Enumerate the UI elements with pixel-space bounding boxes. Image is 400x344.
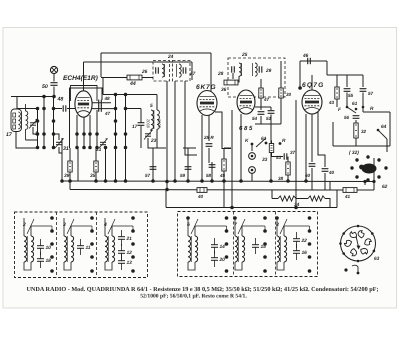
wire — [326, 61, 328, 75]
svg-text:50: 50 — [42, 84, 48, 90]
wire osc bottom — [148, 138, 166, 148]
wire resistor 43 top — [336, 75, 338, 84]
svg-text:55: 55 — [348, 93, 354, 98]
wire main bus 4 — [166, 207, 337, 209]
bus4 junctions — [230, 206, 298, 210]
wire — [156, 129, 158, 148]
contact dots under ECH4 row2 — [75, 146, 99, 150]
coil unit box B dashed border — [178, 212, 318, 277]
svg-text:6Q7G: 6Q7G — [302, 82, 324, 89]
wire — [148, 147, 166, 149]
tube label 6Q7G — [302, 82, 324, 89]
wire 6K7G top feed — [210, 53, 212, 91]
svg-text:29: 29 — [265, 68, 272, 74]
tube label 6K7G — [196, 84, 216, 91]
wire ECH4 grid2 — [92, 102, 111, 104]
value label 23 — [150, 138, 157, 144]
capacitor 57 — [150, 167, 157, 170]
caption line 1 — [26, 286, 378, 293]
wire switch column B — [37, 109, 39, 148]
coil unit box A dashed border — [15, 212, 148, 278]
wire main bus 1 — [62, 180, 374, 183]
svg-text:63: 63 — [374, 256, 380, 262]
capacitor 60 — [309, 164, 316, 167]
value label 48b — [104, 96, 111, 101]
wire resistor 35 bottom — [95, 175, 97, 181]
svg-text:K: K — [245, 138, 249, 144]
phone jack 33 — [249, 153, 256, 160]
wire ECH4 lead 3 — [89, 115, 91, 134]
value label 36 — [221, 87, 227, 93]
wire — [76, 134, 78, 148]
switch label F — [338, 107, 342, 113]
tube 6K7G IF amplifier — [197, 91, 217, 116]
svg-text:R: R — [282, 138, 286, 144]
coil unit 6 — [187, 218, 198, 270]
wire switch column C — [53, 97, 55, 148]
value label 32 — [361, 129, 367, 134]
wire — [324, 173, 326, 190]
wire — [336, 190, 338, 208]
capacitor 57b — [360, 89, 367, 92]
osc switch row0 — [114, 93, 128, 97]
svg-text:61: 61 — [352, 101, 358, 107]
resistor 35 — [94, 158, 98, 175]
svg-text:33: 33 — [262, 157, 268, 163]
value label 40 — [197, 194, 204, 199]
osc switch row3 — [114, 132, 128, 136]
value label 38 — [278, 176, 284, 181]
wire resistor 44 to IF1 — [142, 77, 153, 79]
value label 58 — [206, 173, 212, 178]
wire ECH4 grid lead — [83, 117, 85, 134]
wire 6Q7G lead 2 — [311, 114, 313, 162]
svg-text:10: 10 — [46, 245, 52, 251]
svg-text:6K7G: 6K7G — [196, 84, 216, 91]
value label 1 — [35, 131, 38, 137]
wire — [325, 199, 330, 208]
value label 28b — [217, 71, 224, 77]
svg-text:58: 58 — [206, 173, 212, 178]
wire cathode descend — [77, 148, 79, 182]
capacitor 55 — [344, 89, 351, 92]
coil unit 7 — [234, 218, 245, 270]
coil secondary — [26, 104, 28, 140]
value label 35 — [90, 173, 96, 179]
capacitor 11 — [77, 239, 91, 255]
wire — [272, 198, 278, 200]
wire — [165, 190, 167, 208]
svg-text:25: 25 — [241, 52, 248, 58]
wire AF takeoff — [255, 123, 281, 125]
svg-text:43: 43 — [328, 100, 335, 105]
switch 64 blade — [378, 130, 387, 139]
wire — [296, 198, 308, 200]
wire resistor 39 top — [69, 148, 71, 158]
value label 26 — [141, 69, 148, 75]
capacitor 46 — [308, 58, 311, 64]
switch contacts row 1 — [42, 95, 56, 99]
value label 60 — [305, 173, 311, 178]
svg-text:5: 5 — [150, 103, 153, 109]
capacitor 47 — [99, 105, 102, 111]
wire — [362, 75, 364, 87]
wire osc switch col C — [125, 95, 127, 182]
wire — [150, 129, 152, 131]
wire — [357, 189, 374, 191]
junction grid — [298, 86, 302, 90]
value label 59 — [180, 173, 186, 178]
svg-text:26: 26 — [141, 69, 148, 75]
junction 6K7G bus — [200, 179, 204, 183]
value label 56 — [344, 115, 350, 120]
wire trimmer to switch — [33, 127, 38, 134]
capacitor 51 — [268, 111, 275, 114]
bus junctions — [104, 179, 128, 183]
switch contacts row 4 — [36, 132, 56, 136]
value label 24 — [167, 54, 174, 60]
value label 49 — [263, 97, 270, 102]
antenna terminal — [50, 66, 57, 73]
svg-text:11: 11 — [86, 245, 91, 251]
switch 61a contacts — [251, 142, 282, 146]
terminal dots unit 7 — [233, 216, 267, 273]
value label 29 — [265, 68, 272, 74]
wire 6Q7G cathode — [305, 114, 307, 181]
wire — [362, 93, 364, 108]
capacitor 21 — [118, 230, 132, 246]
wire to varcap 31 — [54, 134, 60, 140]
wire — [346, 75, 348, 87]
wire grid cap to tube — [67, 108, 75, 110]
wire main bus 2 — [70, 189, 330, 192]
value label 5 — [150, 103, 153, 109]
wire — [224, 147, 231, 149]
junction — [210, 179, 214, 183]
switch contacts row 5 — [36, 146, 56, 150]
wire — [271, 141, 273, 145]
capacitor 20 — [211, 251, 225, 267]
tube label ECH4(E1R) — [63, 75, 98, 82]
capacitor 58 — [209, 165, 216, 168]
resistor 32 — [354, 120, 358, 141]
wire — [251, 144, 253, 151]
wire — [126, 108, 142, 110]
junction — [286, 179, 290, 183]
wire osc top — [103, 94, 157, 96]
svg-text:39: 39 — [64, 173, 70, 179]
wire — [330, 189, 343, 191]
switch label R — [282, 138, 286, 144]
coil unit 8 — [276, 218, 287, 270]
svg-text:13: 13 — [127, 260, 133, 266]
capacitor 48a — [63, 105, 66, 111]
wire — [270, 107, 272, 110]
wire plug drop — [373, 158, 375, 190]
bus junctions left — [68, 179, 98, 183]
IF2 primary winding — [239, 63, 242, 76]
wire resistor 45 top — [223, 149, 225, 157]
wire detector feeder — [231, 110, 233, 207]
wire screen feed — [102, 78, 104, 95]
svg-text:16: 16 — [302, 250, 308, 256]
capacitor 12 — [118, 244, 132, 260]
wire resistor 45 bottom — [223, 174, 225, 208]
junction — [304, 179, 308, 183]
svg-text:36: 36 — [221, 87, 227, 93]
osc switch row2 — [114, 119, 118, 123]
wire 6K7G anode branch — [215, 112, 231, 149]
label (32) — [349, 150, 359, 156]
capacitor 50 — [50, 83, 57, 86]
wire ECH4 lead 4 — [96, 110, 98, 134]
plug contact dots — [350, 155, 387, 181]
capacitor 26 — [156, 67, 159, 73]
wire — [272, 156, 284, 158]
svg-text:60: 60 — [305, 173, 311, 178]
socket pin lugs — [344, 230, 372, 258]
svg-text:47: 47 — [263, 97, 270, 102]
svg-text:56: 56 — [344, 115, 350, 120]
terminal dots unit 3 — [71, 216, 94, 273]
switch label 61 — [352, 101, 358, 107]
trimmer capacitor 1 — [29, 119, 38, 129]
wire — [83, 134, 85, 148]
switch contacts row 2 — [36, 107, 56, 111]
switch label K — [245, 138, 249, 144]
value label 51 — [266, 116, 272, 121]
wire resistor 35 top — [95, 148, 97, 158]
wire 6Q7G anode branch — [318, 112, 325, 167]
wire varcap 31 down — [59, 147, 62, 153]
wire — [232, 73, 234, 79]
switch label 64 — [381, 124, 387, 130]
svg-text:57: 57 — [368, 91, 374, 96]
svg-text:32: 32 — [361, 129, 367, 134]
capacitor 27 — [183, 67, 186, 73]
socket aux contact — [344, 265, 359, 274]
capacitor 14 — [211, 238, 225, 254]
IF1 primary winding — [162, 64, 165, 77]
svg-text:UNDA RADIO - Mod. QUADRIUNDA R: UNDA RADIO - Mod. QUADRIUNDA R 64/1 - Re… — [26, 286, 378, 293]
svg-text:31: 31 — [96, 147, 102, 153]
wire — [336, 102, 338, 107]
wire osc varcap down — [105, 148, 107, 182]
wire — [346, 93, 348, 108]
svg-text:54: 54 — [252, 116, 258, 121]
wire — [187, 148, 189, 162]
IF1 secondary winding — [177, 64, 182, 77]
value label 47 — [104, 111, 111, 116]
wire — [287, 178, 289, 181]
svg-text:35: 35 — [90, 173, 96, 179]
wire — [187, 148, 189, 181]
capacitor 54 — [258, 112, 265, 115]
resistor 30 — [279, 85, 283, 101]
osc switch row4 — [114, 146, 128, 150]
capacitor 28 — [232, 66, 235, 72]
svg-text:12: 12 — [127, 250, 133, 256]
svg-text:59: 59 — [180, 173, 186, 178]
svg-text:3: 3 — [63, 222, 66, 228]
capacitor 28R — [206, 144, 213, 147]
resistor 39 — [68, 158, 72, 175]
svg-text:21: 21 — [126, 236, 133, 242]
wire jack down — [251, 174, 253, 182]
wire osc switch col B — [115, 95, 117, 182]
switch label 61a — [261, 136, 267, 142]
value label 39 — [64, 173, 70, 179]
svg-text:46: 46 — [302, 53, 309, 59]
switch contacts row 3 — [36, 119, 56, 123]
value label 34 — [294, 202, 300, 208]
socket rim contacts — [339, 225, 375, 263]
svg-text:40: 40 — [328, 170, 335, 175]
capacitor 40 — [322, 169, 329, 172]
wire — [260, 101, 262, 110]
wire — [211, 162, 213, 169]
capacitor 18 — [37, 252, 51, 268]
value label 25 — [241, 52, 248, 58]
wire volume feed — [270, 124, 272, 181]
wire cap17 top — [140, 109, 142, 123]
variable capacitor 31b — [99, 139, 108, 149]
wire — [183, 147, 196, 149]
wire — [260, 116, 262, 124]
value label 43 — [328, 100, 335, 105]
wire — [364, 181, 366, 185]
wire — [280, 101, 282, 124]
oscillator coil 5 — [146, 110, 162, 129]
wire cap17 bottom — [140, 126, 142, 148]
svg-text:28 R: 28 R — [203, 135, 214, 140]
resistor 44 — [127, 75, 142, 80]
resistor 34a — [278, 196, 296, 201]
tube shield box ECH4 — [71, 86, 98, 102]
wire switch column A — [43, 97, 45, 148]
wire resistor 39 bottom — [69, 175, 71, 181]
value label 55 — [348, 93, 354, 98]
wire — [362, 107, 364, 112]
value label 41 — [344, 194, 351, 199]
value label 48 — [57, 97, 64, 103]
svg-text:44: 44 — [129, 81, 136, 87]
svg-text:27: 27 — [189, 71, 196, 77]
wire 6Q7G anode — [311, 75, 313, 90]
svg-text:7: 7 — [234, 222, 237, 228]
wire — [89, 134, 91, 148]
wire antenna lead — [53, 74, 55, 82]
wire left AVC line — [61, 138, 63, 181]
capacitor 15 — [252, 238, 266, 254]
wire — [231, 207, 233, 209]
wire — [271, 190, 273, 199]
svg-text:20: 20 — [219, 257, 226, 263]
wire ECH4 anode bus — [84, 61, 193, 63]
resistor 41 — [343, 188, 357, 193]
phone jack 33b — [249, 167, 256, 174]
value label 17b — [132, 124, 138, 130]
wire — [152, 148, 154, 181]
wire long feeder B — [174, 81, 176, 181]
value label 46 — [302, 53, 309, 59]
value label 33 — [262, 157, 268, 163]
switch 61 contacts — [346, 106, 365, 111]
wire — [311, 168, 313, 190]
svg-text:ECH4(E1R): ECH4(E1R) — [63, 75, 98, 82]
svg-text:38: 38 — [278, 176, 284, 181]
value label 53 — [276, 155, 282, 160]
resistor 45 — [222, 156, 226, 174]
svg-text:62: 62 — [382, 184, 388, 190]
wire resistor 30 top — [280, 61, 282, 85]
tube label 685 — [239, 125, 253, 132]
wire osc coil top lead — [156, 95, 158, 111]
wire 6K7G cathode down — [201, 115, 203, 181]
svg-text:61: 61 — [261, 136, 267, 142]
value label 57b — [368, 91, 374, 96]
coil 17 shielded antenna coil — [11, 109, 22, 132]
value label 54 — [252, 116, 258, 121]
wire — [329, 181, 331, 190]
svg-text:28: 28 — [217, 71, 224, 77]
switch 61 blade — [347, 107, 356, 113]
svg-text:4: 4 — [103, 222, 107, 228]
value label 31 — [63, 146, 69, 152]
coil unit 4 — [103, 218, 115, 270]
svg-text:40: 40 — [197, 194, 204, 199]
capacitor 16 — [293, 244, 307, 260]
junction — [151, 179, 155, 183]
wire — [96, 134, 98, 148]
wire — [386, 139, 388, 152]
svg-text:53: 53 — [276, 155, 282, 160]
wire diode load — [255, 106, 271, 108]
tube 6B5 detector — [237, 90, 255, 114]
value label 45 — [219, 173, 226, 178]
wire secondary to switch — [26, 134, 38, 140]
capacitor 29 — [259, 66, 262, 72]
coil unit 3 — [63, 218, 74, 270]
wire grid 6Q7G — [299, 61, 301, 88]
wire top bus oscillator — [101, 52, 211, 54]
wire long feeder A — [166, 81, 168, 190]
wire — [69, 181, 71, 190]
svg-text:1000: 1000 — [157, 118, 162, 128]
junction — [269, 179, 273, 183]
wire coil 17 top — [16, 97, 18, 110]
wire to resistor 44 — [101, 77, 127, 79]
capacitor 22 — [293, 232, 307, 248]
wire resistor 49 top — [260, 79, 262, 85]
wire — [363, 111, 390, 113]
wire ECH4 anode up — [83, 62, 85, 91]
svg-text:30: 30 — [286, 92, 292, 97]
resistor 43 — [335, 84, 339, 102]
wire ECH4 grid3 — [92, 108, 116, 110]
tube ECH4 triode-hexode — [75, 91, 92, 117]
value label 63 — [374, 256, 380, 262]
svg-text:37: 37 — [290, 150, 296, 155]
wire 6K7G lead — [208, 115, 210, 141]
svg-text:47: 47 — [104, 111, 111, 116]
svg-text:22: 22 — [301, 238, 308, 244]
svg-text:23: 23 — [150, 138, 157, 144]
wire — [208, 148, 210, 163]
IF transformer 24 dashed shield — [153, 61, 190, 82]
svg-text:2: 2 — [22, 222, 26, 228]
svg-text:52/1000 pF; 56/50/0,1 µF. Rest: 52/1000 pF; 56/50/0,1 µF. Resto come R 5… — [140, 294, 247, 300]
